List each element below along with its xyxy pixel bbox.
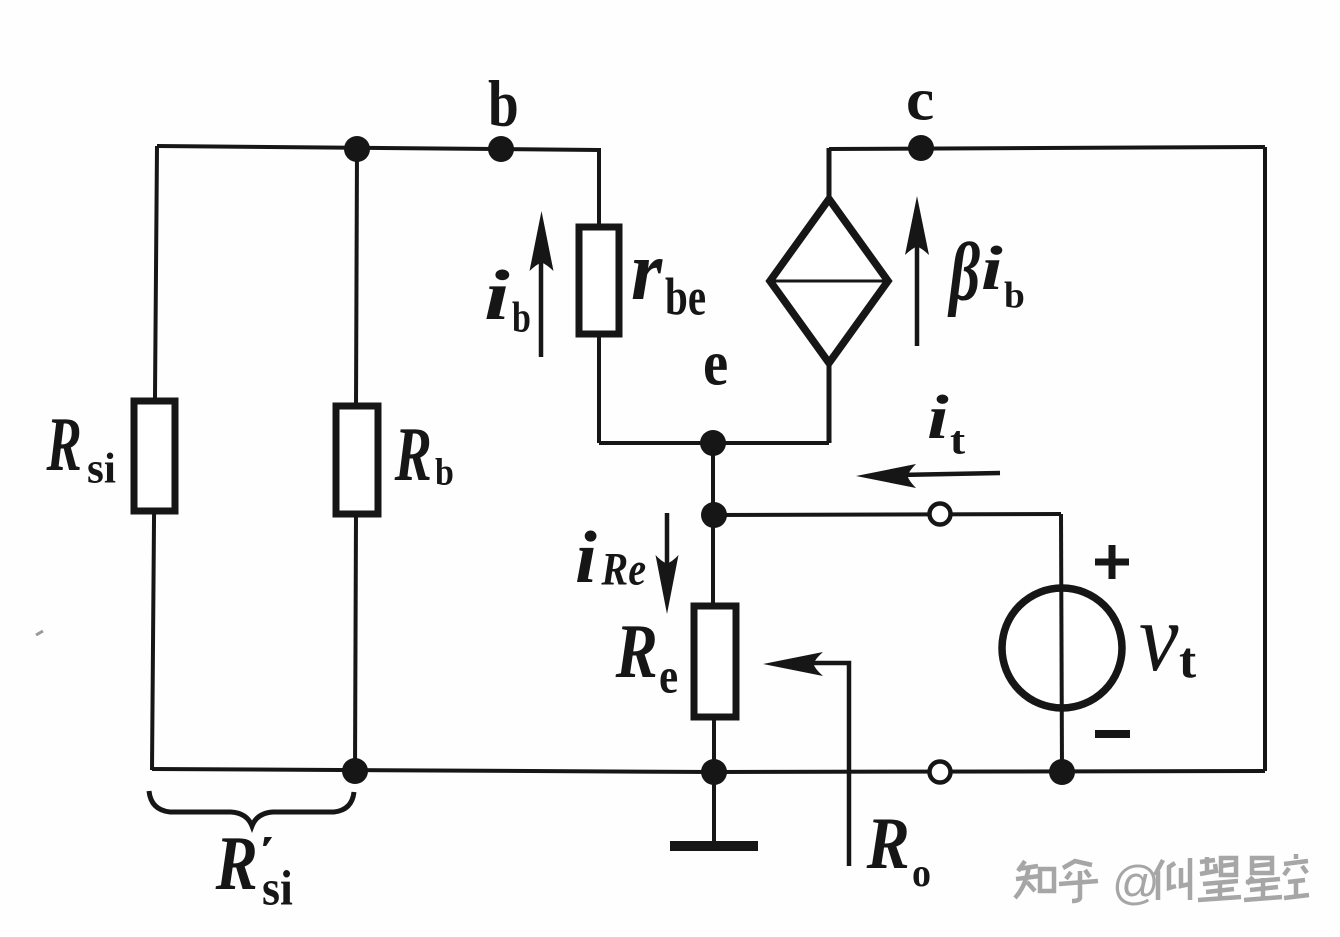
stray scan speck (36, 631, 43, 635)
svg-text:i: i (927, 383, 949, 452)
svg-text:b: b (488, 68, 519, 140)
svg-text:be: be (665, 269, 706, 327)
wire R_b branch upper (356, 150, 357, 406)
arrow i_Re (down) (656, 513, 679, 614)
svg-text:e: e (659, 649, 678, 705)
arrow i_t (left) (856, 464, 1000, 488)
node c (908, 135, 934, 161)
wire diamond top riser to node c (827, 148, 832, 201)
node b (488, 136, 514, 162)
char zhi (1015, 861, 1054, 898)
svg-text:Re: Re (600, 544, 646, 596)
svg-text:R: R (394, 411, 432, 497)
arrow i_b (up) (530, 211, 554, 357)
terminal open circle bottom (930, 762, 951, 783)
svg-text:R: R (215, 821, 258, 906)
plus sign of v_t (1095, 545, 1129, 579)
voltage source v_t (circle) (1002, 588, 1122, 708)
wire R_e bottom to bottom rail (712, 717, 716, 772)
minus sign of v_t (1095, 730, 1130, 738)
arrow beta i_b (up) (905, 196, 929, 346)
svg-text:e: e (703, 328, 728, 399)
svg-text:b: b (512, 295, 531, 342)
wire r_be bottom down (597, 332, 601, 443)
svg-text:@: @ (1112, 856, 1160, 909)
char wang (1198, 857, 1241, 900)
svg-text:β: β (947, 227, 980, 318)
node junction output (701, 502, 727, 528)
wire horizontal to node e and diamond bottom riser (599, 441, 829, 445)
svg-text:v: v (1139, 584, 1179, 692)
char yang (1155, 858, 1190, 900)
node junction left (344, 136, 370, 162)
wire R_b branch lower (355, 514, 356, 770)
svg-text:i: i (981, 234, 1003, 303)
resistor R_si (134, 401, 175, 511)
node e (700, 430, 726, 456)
wire top right from diamond riser through node c to right corner (829, 147, 1265, 149)
svg-text:t: t (1179, 633, 1196, 690)
R_o pointer line and arrow (763, 652, 849, 866)
svg-text:i: i (484, 256, 510, 334)
svg-text:o: o (912, 851, 931, 895)
wire output branch horizontal at y=515 (713, 514, 1061, 515)
wire top left from corner through node b to corner above r_be (157, 146, 599, 150)
resistor R_e (694, 606, 736, 717)
char hu (1059, 861, 1098, 901)
svg-text:b: b (1004, 276, 1025, 317)
wire bottom from left corner to right corner (152, 769, 1265, 772)
svg-text:R: R (866, 803, 910, 885)
char kong (1284, 854, 1309, 898)
svg-text:si: si (87, 444, 116, 492)
svg-text:R: R (46, 402, 82, 487)
wire node e down through junction to R_e top (711, 443, 715, 606)
watermark zhihu (1015, 861, 1098, 901)
svg-text:t: t (950, 419, 966, 463)
resistor R_b (336, 406, 378, 514)
svg-text:b: b (435, 451, 454, 493)
char xing (1244, 858, 1282, 900)
svg-text:i: i (575, 517, 597, 598)
resistor r_be (579, 227, 619, 334)
brace under R'_si (149, 791, 354, 826)
node junction R_b bottom (342, 758, 368, 784)
svg-text:c: c (906, 67, 934, 133)
ground (670, 841, 758, 851)
wire right vertical (1263, 147, 1267, 771)
svg-text:r: r (631, 223, 663, 318)
node bottom center (701, 759, 727, 785)
wire through v_t (1061, 514, 1062, 771)
dependent current source U1 (diamond) (770, 199, 888, 363)
wire diamond bottom riser (827, 360, 832, 443)
terminal open circle top (930, 504, 951, 525)
svg-text:R: R (615, 609, 658, 694)
wire left vertical (source branch) (152, 146, 157, 770)
ground stem (712, 772, 716, 845)
svg-text:si: si (262, 861, 293, 916)
wire node b corner down to r_be top (597, 148, 601, 229)
node v_t bottom (1049, 759, 1075, 785)
